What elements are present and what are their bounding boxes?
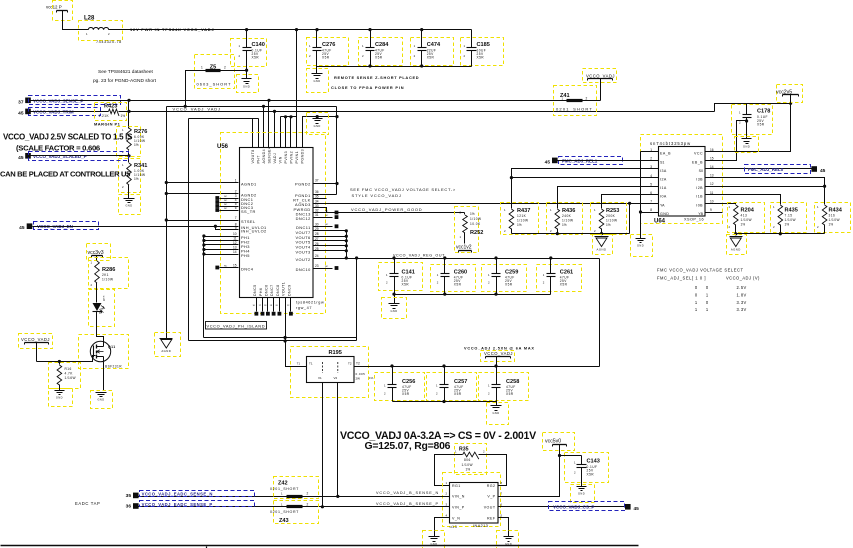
ground below R341 [119, 185, 141, 215]
svg-text:INA213: INA213 [473, 524, 488, 528]
svg-text:DNC10: DNC10 [296, 267, 311, 272]
opamp U13 INA213 [443, 473, 503, 530]
capacitor C185 [461, 30, 504, 67]
wire AGND down to PGND rows [336, 107, 338, 195]
svg-text:30: 30 [315, 222, 319, 226]
jumper Z5 [195, 55, 247, 89]
svg-text:GND: GND [743, 145, 750, 149]
wire TRIM line [31, 111, 109, 113]
svg-text:2.5V: 2.5V [737, 285, 747, 290]
wire PH bus [203, 237, 205, 338]
svg-text:PVIN1: PVIN1 [295, 151, 299, 164]
AGND arrow symbol left [155, 333, 181, 357]
ground below C258 [487, 402, 509, 425]
svg-text:23: 23 [315, 264, 319, 268]
svg-text:AGND4: AGND4 [262, 149, 266, 164]
svg-text:C185: C185 [477, 42, 490, 48]
svg-text:DNC4: DNC4 [241, 266, 254, 271]
svg-text:X5R: X5R [454, 392, 462, 396]
svg-text:413: 413 [741, 214, 748, 218]
svg-text:DNC7: DNC7 [270, 284, 274, 296]
svg-text:VOUT: VOUT [484, 505, 496, 509]
svg-text:SS_TR: SS_TR [241, 209, 256, 214]
resistor R286 [89, 258, 129, 289]
svg-text:I0B: I0B [696, 203, 703, 207]
svg-text:VOUT2: VOUT2 [295, 257, 310, 262]
capacitor C178 [732, 104, 791, 139]
terminal 37 VCCO_VADJ_SENSE_P [18, 96, 120, 106]
capacitor C259 [482, 256, 527, 294]
junction TRIM-divider [127, 110, 130, 113]
wire SENSE_P line [31, 100, 567, 102]
junction bottom rail C474 [420, 64, 423, 67]
svg-text:S1: S1 [660, 160, 664, 164]
svg-text:X5R: X5R [427, 56, 435, 60]
svg-text:pg. 23 for PGND-AGND short: pg. 23 for PGND-AGND short [93, 78, 157, 84]
svg-text:GND: GND [492, 411, 499, 415]
svg-text:NC: NC [224, 204, 228, 206]
svg-text:1/10W: 1/10W [102, 278, 113, 282]
svg-text:GND: GND [243, 85, 250, 89]
svg-text:VCCO_ADJ 2.5XN @ 6A MAX: VCCO_ADJ 2.5XN @ 6A MAX [464, 346, 535, 350]
svg-text:16: 16 [710, 148, 714, 152]
wire caps gnd rail mid [395, 294, 551, 296]
wire I3A row [512, 169, 659, 178]
svg-text:rgw_47: rgw_47 [296, 306, 312, 310]
svg-text:GND: GND [56, 396, 63, 400]
svg-text:T1: T1 [309, 362, 313, 366]
power flag vcc1v2 below R252 [456, 233, 472, 253]
wire SCALED_P line [31, 155, 129, 157]
svg-text:NC: NC [224, 200, 228, 202]
terminal 45 FMC_ADJ_REL1 [545, 157, 623, 166]
capacitor C140 [231, 30, 267, 79]
wire AGND2 row [167, 193, 239, 195]
wire RG2 loop [479, 455, 507, 486]
power flag vcc5v0 [543, 433, 575, 456]
svg-text:U64: U64 [654, 219, 666, 225]
svg-text:4.7K: 4.7K [65, 372, 74, 376]
svg-text:sn74cbt3253pw: sn74cbt3253pw [650, 141, 691, 146]
svg-text:GND: GND [97, 398, 104, 402]
svg-text:45: 45 [18, 111, 24, 117]
ground below C143 [571, 485, 595, 503]
svg-text:VIN_P: VIN_P [452, 505, 465, 509]
wire AGND net vertical [166, 107, 168, 339]
wire AGND3-YA line [313, 203, 659, 205]
junction 12V rail at C276 [315, 28, 318, 31]
svg-text:C284: C284 [375, 42, 389, 48]
svg-text:VADJ: VADJ [273, 153, 277, 164]
wire sense N line [139, 496, 450, 498]
svg-text:GND: GND [578, 492, 585, 496]
capacitor C260 [431, 256, 476, 294]
svg-text:AGND: AGND [597, 248, 607, 252]
wire VOUT8 PH7 risers [252, 119, 254, 148]
svg-text:PVIN3: PVIN3 [284, 151, 288, 164]
wire VADJ riser [274, 112, 276, 148]
ground below C141 [382, 298, 407, 319]
ground below R16 [49, 385, 73, 407]
wire left return vertical [188, 119, 190, 341]
svg-text:VCCO_VADJ_B_SENSE_P: VCCO_VADJ_B_SENSE_P [376, 502, 439, 506]
power flag VCC12 [46, 1, 73, 21]
svg-text:R195: R195 [329, 350, 342, 356]
svg-text:1%: 1% [785, 223, 790, 227]
svg-text:2: 2 [235, 190, 237, 194]
resistor R276 [117, 127, 148, 157]
wire I2A row [512, 177, 659, 179]
capacitor C474 [411, 30, 454, 67]
svg-text:9: 9 [235, 226, 237, 230]
junction 12V rail at PVIN riser [295, 28, 298, 31]
capacitor C258 [479, 367, 529, 402]
junction bottom rail C284 [368, 64, 371, 67]
svg-text:VOUT7: VOUT7 [295, 230, 310, 235]
svg-text:1/10W: 1/10W [470, 217, 481, 221]
svg-text:7: 7 [235, 216, 237, 220]
svg-text:U56: U56 [217, 144, 229, 150]
svg-text:1: 1 [235, 179, 237, 183]
svg-text:10: 10 [710, 199, 714, 203]
junction vcc2v5 node [789, 102, 792, 105]
svg-text:REF: REF [487, 516, 496, 520]
wire PGND3 to gnd [303, 117, 337, 148]
wire VOUT bus [346, 231, 348, 259]
svg-text:X5R: X5R [375, 56, 383, 60]
svg-text:grn: grn [102, 295, 106, 301]
svg-text:1%: 1% [517, 223, 522, 227]
wire VADJ line [119, 111, 715, 113]
svg-text:NC: NC [224, 208, 228, 210]
capacitor C284 [359, 30, 403, 67]
svg-text:X5R: X5R [402, 282, 410, 286]
svg-text:1%: 1% [606, 223, 611, 227]
svg-text:6: 6 [235, 206, 237, 210]
svg-text:V2: V2 [334, 376, 338, 380]
junction C140-Z5 [245, 69, 248, 72]
svg-text:14: 14 [710, 165, 714, 169]
svg-text:tps84621rgw: tps84621rgw [296, 301, 324, 305]
svg-text:VCCO_VADJ 2.5V SCALED TO 1.5 I: VCCO_VADJ 2.5V SCALED TO 1.5 IS [3, 132, 133, 141]
wire AGND line top [167, 106, 337, 108]
svg-text:FMC_ADJ_REL0: FMC_ADJ_REL0 [748, 167, 784, 172]
svg-text:806: 806 [464, 458, 471, 462]
svg-text:YB: YB [698, 212, 703, 216]
svg-text:1%: 1% [562, 223, 567, 227]
svg-text:DNC6: DNC6 [264, 284, 268, 296]
svg-text:C140: C140 [252, 42, 265, 48]
svg-text:2K1: 2K1 [102, 273, 109, 277]
sheet border bottom [1, 545, 639, 547]
svg-text:RG1: RG1 [452, 484, 461, 488]
svg-text:1.21K: 1.21K [99, 114, 110, 118]
wire divider vertical [128, 101, 130, 129]
svg-text:vcc1v2: vcc1v2 [456, 244, 472, 250]
svg-text:FMC_ADJ_SEL[ 1 0 ]: FMC_ADJ_SEL[ 1 0 ] [657, 276, 706, 281]
svg-text:5: 5 [650, 182, 652, 186]
svg-text:45: 45 [634, 506, 640, 512]
svg-text:10.0K: 10.0K [470, 222, 481, 226]
svg-text:C260: C260 [454, 270, 467, 276]
svg-text:See TPS84621 datasheet: See TPS84621 datasheet [98, 69, 154, 75]
svg-text:2: 2 [307, 491, 309, 495]
svg-text:VCCO_VADJ_PH_ISLAND: VCCO_VADJ_PH_ISLAND [207, 324, 266, 329]
svg-text:32: 32 [315, 209, 319, 213]
resistor R253 [591, 203, 627, 235]
mux U64 SN74CBT3253 [641, 135, 723, 225]
junction I3B-I2B at R434 [823, 185, 826, 188]
svg-text:DNC12: DNC12 [296, 216, 311, 221]
ground below U64 [631, 235, 653, 257]
svg-text:AGND1: AGND1 [241, 181, 257, 186]
svg-text:1%: 1% [470, 212, 475, 216]
svg-text:2: 2 [224, 66, 226, 70]
svg-text:SEE FMC VCCO_VADJ VOLTAGE SELE: SEE FMC VCCO_VADJ VOLTAGE SELECT-> [350, 187, 456, 192]
jumper Z43 [270, 501, 319, 525]
svg-text:X5R: X5R [402, 392, 410, 396]
svg-text:2: 2 [307, 503, 309, 507]
svg-text:XSOP_16: XSOP_16 [684, 218, 704, 222]
svg-text:1%: 1% [369, 376, 374, 380]
transistor Q11 MOSFET [79, 321, 129, 391]
junction SCALED_P [127, 154, 130, 157]
junction 12V rail at C474 [420, 28, 423, 31]
svg-text:V_N: V_N [452, 516, 460, 520]
wire output caps gnd rail [393, 401, 497, 403]
svg-text:45: 45 [545, 160, 551, 166]
U56 bottom pins [252, 282, 292, 316]
jumper Z42 [270, 477, 319, 499]
svg-text:AGND: AGND [161, 349, 171, 353]
svg-text:VCCO_VADJ_EADC_SENSE_N: VCCO_VADJ_EADC_SENSE_N [142, 492, 213, 497]
svg-text:C256: C256 [402, 379, 415, 385]
svg-text:2: 2 [586, 97, 588, 101]
wire PWRGD line [313, 208, 465, 213]
svg-text:15: 15 [710, 156, 714, 160]
svg-text:0603_SHORT: 0603_SHORT [197, 82, 232, 87]
terminal 45 VCCO_VADJ_EN [19, 222, 98, 232]
wire VCC12 to L28 [63, 11, 89, 30]
capacitor C256 [375, 367, 425, 402]
table FMC voltage select [657, 268, 760, 313]
svg-text:R423: R423 [104, 104, 117, 110]
svg-text:28: 28 [315, 232, 319, 236]
terminal 45 VCCO_VADJ_SCALED_P [18, 152, 128, 161]
junction 12V rail at C284 [368, 28, 371, 31]
junction C178 gnd lead [745, 119, 748, 122]
svg-text:vcc5v0: vcc5v0 [545, 438, 561, 444]
svg-text:0201_SHORT: 0201_SHORT [270, 487, 299, 491]
svg-text:37: 37 [18, 99, 24, 105]
svg-text:EA_B: EA_B [660, 152, 671, 156]
U56 right NC pins [313, 210, 339, 270]
resistor R341 [119, 159, 148, 193]
capacitor C257 [427, 367, 477, 402]
svg-text:121K: 121K [517, 214, 527, 218]
junction SENSE_P pin riser [267, 99, 270, 102]
svg-text:VCCO_VADJ_VADJ: VCCO_VADJ_VADJ [173, 107, 221, 112]
U56 top pin names [251, 147, 305, 164]
svg-text:C178: C178 [757, 109, 770, 115]
resistor R35 [455, 444, 487, 475]
svg-text:1%: 1% [121, 114, 126, 118]
wire YA riser from resistor rail [629, 204, 631, 234]
svg-text:316: 316 [829, 214, 836, 218]
wire I1A row [558, 187, 659, 209]
svg-text:MARGIN P1: MARGIN P1 [94, 121, 121, 126]
wire U64 GND down [640, 213, 642, 239]
svg-text:1%: 1% [134, 177, 139, 181]
svg-text:7443320-78: 7443320-78 [96, 40, 122, 44]
svg-text:DNC5: DNC5 [253, 284, 257, 296]
junction YA-rail riser [628, 202, 631, 205]
svg-text:DNC8: DNC8 [276, 284, 280, 296]
wire V_P to vcc5v0 [499, 456, 560, 497]
svg-text:X5R: X5R [454, 283, 462, 287]
svg-text:CAN BE PLACED AT CONTROLLER U5: CAN BE PLACED AT CONTROLLER U5 [0, 169, 131, 178]
ground below INA left [423, 531, 445, 548]
svg-text:I1B: I1B [696, 195, 703, 199]
svg-text:C276: C276 [322, 42, 335, 48]
junction VADJ riser [273, 110, 276, 113]
terminal 45 VCCO_VADJ_CS_P [549, 502, 640, 512]
svg-text:GND: GND [390, 309, 397, 313]
wire R195 T1 feed [286, 338, 307, 367]
svg-text:X5R: X5R [252, 56, 260, 60]
junction vcc5v0 node [558, 454, 561, 457]
capacitor C276 [307, 30, 349, 67]
svg-text:1: 1 [650, 148, 652, 152]
svg-text:VCCO_VADJ_B_SENSE_N: VCCO_VADJ_B_SENSE_N [376, 491, 439, 495]
module U56 TPS84621 [217, 133, 326, 314]
junction output row C257 [442, 364, 445, 367]
svg-text:0201_SHORT: 0201_SHORT [270, 510, 299, 514]
U56 left pins [215, 179, 266, 272]
svg-text:VCCO_ADJ (V): VCCO_ADJ (V) [726, 276, 760, 281]
wire VOUT1 to PH island [285, 298, 287, 338]
ground above U56 [307, 113, 329, 135]
svg-text:200K: 200K [606, 214, 616, 218]
ground below Q11 [91, 391, 113, 409]
wire S1 row [558, 160, 659, 162]
svg-text:X5R: X5R [757, 123, 765, 127]
wire PGND1 row [313, 194, 337, 196]
svg-text:R35: R35 [459, 447, 469, 453]
resistor R423 [95, 103, 127, 121]
power flag VCCO_VADJ gate [19, 334, 53, 362]
svg-text:1/10W: 1/10W [741, 218, 752, 222]
wire PH island lower line [189, 340, 357, 342]
svg-text:VCCO_VADJ_CS_P: VCCO_VADJ_CS_P [553, 504, 594, 509]
junction INH tie [214, 225, 217, 228]
svg-text:V_P: V_P [487, 494, 495, 498]
wire PH island line [204, 337, 357, 339]
ground below C140 [237, 75, 259, 93]
svg-text:45: 45 [19, 225, 25, 231]
svg-text:1/10W: 1/10W [517, 219, 528, 223]
svg-text:C261: C261 [560, 270, 573, 276]
svg-text:X5R: X5R [560, 283, 568, 287]
resistor R436 [547, 203, 583, 235]
wire I0B row [723, 204, 736, 205]
svg-text:u13: u13 [450, 525, 458, 529]
svg-text:EB_B: EB_B [692, 160, 703, 164]
svg-text:RG2: RG2 [487, 484, 496, 488]
wire VOUT vertical to R195 row [356, 259, 358, 341]
svg-text:NC: NC [224, 266, 228, 268]
junction VOUT out [355, 256, 358, 259]
svg-text:1/10W: 1/10W [562, 219, 573, 223]
wire SENSE+ riser [268, 101, 270, 148]
svg-text:1%: 1% [829, 223, 834, 227]
svg-text:R252: R252 [470, 230, 483, 236]
svg-text:0201_SHORT: 0201_SHORT [556, 106, 593, 111]
svg-text:X5R: X5R [322, 56, 330, 60]
svg-text:13: 13 [710, 174, 714, 178]
svg-text:C259: C259 [505, 270, 518, 276]
svg-text:C143: C143 [587, 459, 600, 465]
svg-text:2W: 2W [356, 377, 361, 381]
svg-text:7.15: 7.15 [785, 214, 793, 218]
junction I3A-I2A at R437 [510, 176, 513, 179]
resistor R195 [291, 347, 374, 398]
AGND arrow right [727, 235, 747, 255]
svg-text:Z42: Z42 [278, 481, 288, 487]
svg-text:T1: T1 [297, 362, 301, 366]
wire U64 VCC to vcc2v5 [723, 104, 791, 152]
svg-text:1/10W: 1/10W [785, 218, 796, 222]
wire resistor rail left [512, 233, 630, 235]
svg-text:1%: 1% [741, 223, 746, 227]
svg-text:34: 34 [315, 199, 319, 203]
wire RG1 loop [435, 455, 463, 486]
svg-text:14: 14 [233, 250, 237, 254]
svg-text:PH5: PH5 [241, 253, 250, 258]
svg-text:NC: NC [325, 224, 329, 226]
svg-text:STSEL: STSEL [241, 219, 256, 224]
svg-text:1: 1 [201, 66, 203, 70]
resistor R434 [815, 203, 851, 233]
wire 12V rail [109, 29, 472, 31]
resistor R204 [728, 203, 765, 233]
junction output row C256 [390, 364, 393, 367]
svg-text:45: 45 [820, 168, 826, 174]
U56 right pin names [293, 179, 319, 272]
svg-text:Z43: Z43 [279, 518, 289, 524]
svg-text:36: 36 [315, 190, 319, 194]
wire EB_B to gnd node [723, 121, 747, 161]
svg-text:PH6: PH6 [259, 288, 263, 296]
svg-text:REMOTE SENSE Z-SHORT PLACED: REMOTE SENSE Z-SHORT PLACED [334, 75, 419, 80]
svg-text:12V PWR IN TPS84K VCCO_VADJ: 12V PWR IN TPS84K VCCO_VADJ [130, 27, 214, 32]
svg-text:CLOSE TO FPGA POWER PIN: CLOSE TO FPGA POWER PIN [331, 85, 404, 90]
capacitor C261 [537, 256, 582, 294]
svg-text:INH_UVLO2: INH_UVLO2 [241, 229, 267, 234]
svg-text:VCCO_VADJ: VCCO_VADJ [21, 337, 50, 342]
capacitor C141 [379, 256, 423, 303]
svg-text:DNC9: DNC9 [287, 284, 291, 296]
svg-text:vcc12 P: vcc12 P [46, 5, 62, 10]
wire STSEL row [167, 220, 239, 222]
svg-text:VOUT3: VOUT3 [295, 250, 310, 255]
wire PVIN risers [280, 117, 282, 148]
svg-text:3.3V: 3.3V [737, 307, 747, 312]
wire right resistor rail [736, 233, 825, 235]
svg-text:240K: 240K [562, 214, 572, 218]
wire R195 output row [354, 366, 600, 368]
svg-text:31: 31 [315, 213, 319, 217]
